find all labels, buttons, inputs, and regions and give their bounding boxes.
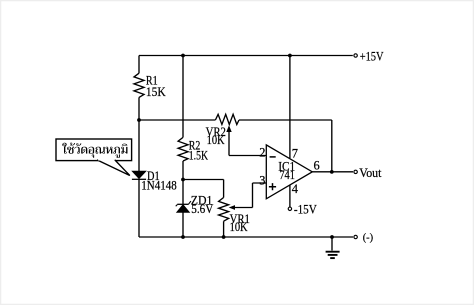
svg-text:7: 7 — [292, 146, 298, 160]
svg-text:Vout: Vout — [359, 165, 382, 180]
svg-text:10K: 10K — [230, 220, 248, 234]
svg-text:1.5K: 1.5K — [189, 149, 208, 163]
svg-text:2: 2 — [259, 145, 265, 159]
svg-text:(-): (-) — [363, 233, 374, 244]
svg-text:5.6V: 5.6V — [191, 202, 213, 216]
svg-text:1N4148: 1N4148 — [141, 178, 176, 192]
svg-text:6: 6 — [314, 159, 320, 173]
svg-text:+15V: +15V — [360, 48, 384, 63]
svg-text:-15V: -15V — [294, 202, 317, 217]
svg-text:3: 3 — [259, 174, 265, 188]
svg-text:741: 741 — [279, 168, 295, 182]
svg-text:4: 4 — [292, 182, 298, 196]
svg-text:10K: 10K — [207, 133, 225, 147]
svg-text:15K: 15K — [146, 85, 166, 99]
